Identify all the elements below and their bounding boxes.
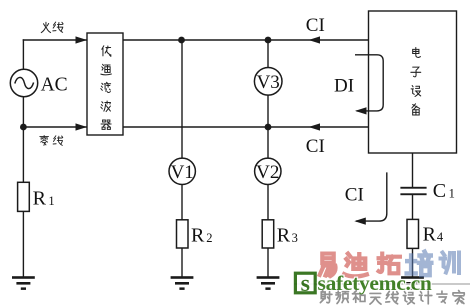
wire live bus right segment: [123, 39, 369, 41]
wire C1 to R4: [412, 195, 414, 219]
label 备: [412, 104, 420, 115]
svg-text:DI: DI: [334, 76, 354, 97]
svg-text:s: s: [301, 271, 310, 297]
ground under R4: [401, 276, 424, 279]
svg-text:V3: V3: [257, 72, 280, 93]
wire V2 top: [267, 127, 269, 158]
arrow DI loop: [355, 107, 367, 114]
label 器: [101, 120, 111, 129]
arrow CI on neutral bus: [309, 123, 321, 130]
svg-text:AC: AC: [41, 74, 68, 95]
wire R1 to ground: [22, 211, 24, 277]
AC sine wave: [15, 77, 34, 88]
svg-text:CI: CI: [306, 15, 325, 36]
wire R3 to ground: [267, 248, 269, 277]
svg-text:safetyemc.cn: safetyemc.cn: [318, 271, 432, 295]
svg-text:R: R: [277, 224, 291, 246]
svg-text:R: R: [33, 187, 47, 209]
svg-text:C: C: [433, 180, 446, 202]
svg-text:R: R: [191, 224, 205, 246]
svg-text:1: 1: [449, 187, 455, 201]
arrow into filter (live): [76, 36, 88, 43]
watermark 射频和天线设计专家 (gray): [320, 291, 332, 303]
svg-text:CI: CI: [306, 136, 325, 157]
wire equipment to C1: [412, 153, 414, 187]
svg-text:V1: V1: [171, 162, 194, 183]
label 火线 (live): [41, 22, 50, 32]
node neutral/AC junction: [20, 124, 27, 131]
label 子: [411, 67, 421, 77]
svg-text:V2: V2: [256, 162, 279, 183]
svg-text:4: 4: [437, 230, 444, 244]
wire V3 bottom: [267, 94, 269, 127]
label 滤: [101, 82, 111, 92]
svg-text:R: R: [423, 223, 437, 245]
resistor R4: [407, 219, 419, 248]
wire AC top lead: [22, 39, 24, 69]
DI current loop: [355, 55, 383, 111]
svg-text:1: 1: [48, 194, 54, 208]
arrow into filter (neutral): [76, 123, 88, 130]
voltmeter V2: [255, 158, 281, 184]
ground under R2: [171, 276, 194, 279]
arrow CI on live bus: [309, 36, 321, 43]
label 通: [101, 64, 112, 75]
ground under R1: [12, 276, 35, 279]
CI bent arrow near C1: [356, 172, 387, 221]
voltmeter V1: [169, 158, 195, 184]
resistor R3: [262, 220, 274, 248]
watermark 培训 (blue): [407, 252, 432, 276]
wire neutral bus right segment: [123, 126, 369, 128]
label 电: [413, 48, 421, 58]
wire R2 to ground: [181, 248, 183, 277]
wire neutral bus left segment: [23, 126, 87, 128]
AC source circle: [10, 69, 37, 96]
resistor R1: [18, 182, 30, 211]
wire AC bottom lead: [22, 97, 24, 183]
watermark gray rule: [294, 283, 470, 285]
wire live bus left segment: [23, 39, 87, 41]
node live/V1 junction: [178, 37, 185, 44]
capacitor C1: [400, 187, 426, 189]
label 零线 (neutral): [40, 135, 49, 145]
wire V2 to R3: [267, 184, 269, 220]
low-pass filter box: [87, 33, 123, 135]
node live/V3 junction: [265, 37, 272, 44]
wire V3 top: [267, 40, 269, 68]
watermark 易迪拓 (red): [320, 254, 336, 276]
label 低: [102, 46, 111, 57]
wire V1 column top: [181, 40, 183, 158]
electronic equipment box: [369, 11, 457, 153]
svg-text:CI: CI: [345, 184, 364, 205]
svg-text:3: 3: [292, 231, 298, 245]
ground under R3: [257, 276, 280, 279]
svg-text:2: 2: [206, 231, 212, 245]
resistor R2: [177, 220, 189, 248]
node neutral/V2 junction: [265, 124, 272, 131]
wire R4 to ground: [412, 248, 414, 277]
wire V1 to R2: [181, 184, 183, 220]
watermark logo box S: [295, 271, 315, 297]
label 波: [101, 101, 111, 112]
voltmeter V3: [254, 68, 282, 96]
label 设: [411, 86, 421, 97]
